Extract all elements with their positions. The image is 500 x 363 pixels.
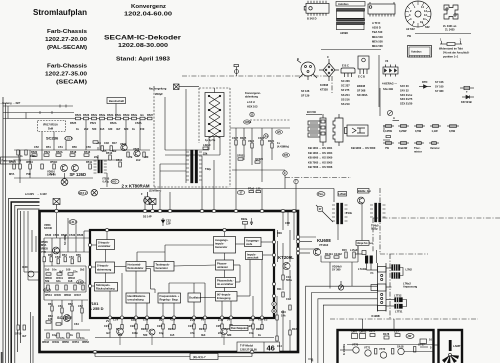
note text Widerstand <box>439 47 470 59</box>
transistor VT61 <box>64 315 71 322</box>
svg-text:IC545: IC545 <box>54 293 61 297</box>
vertical resistors left cluster <box>13 155 122 169</box>
module title box T-/F-Modul 46 <box>237 342 280 352</box>
svg-text:2 x KT80RAM: 2 x KT80RAM <box>122 183 150 188</box>
svg-text:IR535: IR535 <box>41 247 48 251</box>
pin voltage labels under IC <box>106 318 268 324</box>
svg-text:IR510: IR510 <box>26 160 33 164</box>
wire bus top <box>3 106 74 119</box>
svg-text:T32µ: T32µ <box>205 167 211 171</box>
svg-text:B: B <box>297 57 299 61</box>
svg-text:C14: C14 <box>277 344 282 348</box>
block Ausgangs-impuls-Generator <box>214 237 236 254</box>
svg-text:R55: R55 <box>76 253 81 257</box>
left analog cluster extra labels <box>42 233 89 344</box>
svg-text:ZL 3421 an: ZL 3421 an <box>443 24 457 28</box>
svg-text:R52A: R52A <box>110 121 117 125</box>
coil loop wire <box>400 268 407 307</box>
svg-text:680: 680 <box>227 333 232 337</box>
svg-text:SP10: SP10 <box>15 332 22 336</box>
svg-text:DrahtW: DrahtW <box>398 146 408 150</box>
right strip wires <box>277 211 290 352</box>
svg-text:R23: R23 <box>168 327 173 331</box>
diode SY106/360 list <box>435 80 444 93</box>
svg-text:L21 F: L21 F <box>70 220 77 224</box>
svg-text:...tastung → DrP: ...tastung → DrP <box>0 101 20 105</box>
svg-text:DrM: DrM <box>48 127 53 131</box>
svg-text:R518: R518 <box>70 150 77 154</box>
svg-text:1k5: 1k5 <box>170 333 175 337</box>
svg-text:SY 360: SY 360 <box>435 89 444 93</box>
svg-text:C14b2: C14b2 <box>334 252 342 256</box>
cap L32 22k <box>203 147 208 150</box>
svg-text:33n: 33n <box>56 279 61 283</box>
connector ladder F1 <box>371 263 386 312</box>
svg-text:R52b: R52b <box>107 113 114 117</box>
svg-text:(PAL-SECAM): (PAL-SECAM) <box>47 45 87 51</box>
svg-text:90°-Impuls-: 90°-Impuls- <box>217 293 231 297</box>
svg-text:C50: C50 <box>86 145 91 149</box>
svg-text:P7a0: P7a0 <box>248 187 255 191</box>
svg-text:Bereitschaft: Bereitschaft <box>109 99 124 103</box>
svg-text:7W: 7W <box>407 34 411 38</box>
wire from 2xKT80RAM line diagonal <box>298 189 334 254</box>
svg-text:R54: R54 <box>62 253 67 257</box>
svg-text:1202.27-20.00: 1202.27-20.00 <box>45 37 87 43</box>
svg-text:C08: C08 <box>285 221 290 225</box>
svg-text:MEA 500: MEA 500 <box>372 44 383 48</box>
svg-text:L32µ0: L32µ0 <box>203 143 211 147</box>
block Oszillator <box>188 293 201 302</box>
notched IC socket ZL3421 <box>444 5 458 19</box>
svg-text:MEA 540: MEA 540 <box>372 35 383 39</box>
svg-text:O2N1: O2N1 <box>245 120 252 124</box>
KT209L area small parts <box>278 211 295 262</box>
svg-text:SY 106: SY 106 <box>435 80 444 84</box>
DIP IC package A255D list <box>368 2 395 17</box>
svg-text:A: A <box>393 116 395 120</box>
svg-text:SAY 30: SAY 30 <box>47 173 56 177</box>
svg-text:Farb-Chassis: Farb-Chassis <box>47 29 87 35</box>
svg-text:V527: V527 <box>120 142 127 146</box>
svg-text:C23: C23 <box>157 324 162 328</box>
svg-text:SAY30: SAY30 <box>44 226 53 230</box>
connector box KB right <box>57 199 157 212</box>
svg-text:KB 7005 ↔ KS 5005: KB 7005 ↔ KS 5005 <box>308 160 333 164</box>
svg-text:4.2V: 4.2V <box>170 318 176 322</box>
scan crease smudge bottom-left <box>1 352 3 363</box>
svg-text:14h: 14h <box>281 313 286 317</box>
svg-text:ZL 3425: ZL 3425 <box>445 28 455 32</box>
svg-text:1,1W: 1,1W <box>432 129 439 133</box>
page edge double line <box>3 97 6 363</box>
svg-text:1202.27-35.00: 1202.27-35.00 <box>45 72 87 78</box>
extra marks on top chain cluster <box>18 127 149 162</box>
block S-Impuls-verstaerker <box>97 240 115 250</box>
svg-text:SF 129: SF 129 <box>301 94 310 98</box>
svg-text:R52c: R52c <box>115 113 122 117</box>
svg-text:umschalt: umschalt <box>247 256 259 260</box>
svg-text:SF821: SF821 <box>237 154 245 158</box>
components strip under IC <box>109 324 263 329</box>
box Bildende hor <box>358 189 370 194</box>
svg-text:R52A: R52A <box>56 150 63 154</box>
svg-text:SECAM-IC-Dekoder: SECAM-IC-Dekoder <box>104 35 182 42</box>
block Phasendiskr-im-verstaerker <box>216 278 236 288</box>
svg-text:1202.27-76.00: 1202.27-76.00 <box>240 348 257 352</box>
svg-text:Regelsp.- Begr.: Regelsp.- Begr. <box>160 298 179 302</box>
svg-text:KB 1001 ↔ KS 1001: KB 1001 ↔ KS 1001 <box>308 146 333 150</box>
wires to boxes from above <box>363 319 395 330</box>
resistor wattage row 1 <box>383 125 459 128</box>
svg-text:impuls-: impuls- <box>215 242 224 246</box>
separator line under socket <box>415 33 471 35</box>
transformer T14b1 <box>370 203 386 222</box>
svg-text:R14b1: R14b1 <box>325 252 333 256</box>
svg-text:TBA 540: TBA 540 <box>372 30 383 34</box>
svg-text:820: 820 <box>124 127 129 131</box>
svg-text:IC547: IC547 <box>74 293 81 297</box>
block Phasen-umtaster <box>216 260 234 270</box>
svg-text:R52f: R52f <box>147 113 153 117</box>
svg-text:DRV: DRV <box>352 330 358 334</box>
svg-text:1202.08-30.000: 1202.08-30.000 <box>118 43 168 49</box>
svg-text:C54: C54 <box>69 255 74 259</box>
svg-text:3k3: 3k3 <box>201 333 206 337</box>
svg-text:IR546: IR546 <box>64 293 71 297</box>
HD oval 12V <box>111 179 119 184</box>
left outer strip small parts <box>17 325 25 330</box>
svg-text:(SECAM): (SECAM) <box>56 80 87 86</box>
svg-text:SZX 21/xx: SZX 21/xx <box>400 93 413 97</box>
oval 28.5V <box>78 190 87 195</box>
svg-text:IC551: IC551 <box>72 340 79 344</box>
svg-text:Demodulator: Demodulator <box>128 266 144 270</box>
svg-text:Farb-Chassis: Farb-Chassis <box>47 64 87 70</box>
svg-text:KB 7006 ↔ KS 5006: KB 7006 ↔ KS 5006 <box>308 165 333 169</box>
svg-text:P521: P521 <box>90 121 97 125</box>
tick marks along bus wires <box>8 105 66 119</box>
svg-text:C: C <box>327 55 329 59</box>
svg-text:0!: 0! <box>311 359 313 363</box>
svg-text:Generator: Generator <box>156 266 168 270</box>
svg-text:1202.04-60.00: 1202.04-60.00 <box>124 12 172 18</box>
svg-text:1.2V: 1.2V <box>113 318 119 322</box>
block 90-Impuls-Erzeugung <box>216 292 238 302</box>
svg-text:0V: 0V <box>159 318 162 322</box>
svg-text:2k2: 2k2 <box>84 127 89 131</box>
svg-text:47n: 47n <box>60 336 65 340</box>
strip resistor R22a <box>243 222 248 225</box>
svg-text:C64: C64 <box>74 322 79 326</box>
svg-text:IC20: IC20 <box>22 265 28 269</box>
svg-text:IC549: IC549 <box>52 340 59 344</box>
small circle IC20 <box>28 271 34 277</box>
svg-text:SZX 21/30: SZX 21/30 <box>400 102 413 106</box>
svg-text:Stromlaufplan: Stromlaufplan <box>33 8 87 17</box>
svg-text:C53: C53 <box>55 255 60 259</box>
svg-text:C22: C22 <box>130 324 135 328</box>
svg-text:R15: R15 <box>342 248 347 252</box>
svg-text:22n: 22n <box>73 270 78 274</box>
svg-text:Autobus: Autobus <box>338 2 349 6</box>
oval 0.9V <box>43 288 50 292</box>
label box B-4(1)-7 <box>190 354 218 360</box>
svg-text:C12: C12 <box>286 297 291 301</box>
transformer L7A1B (black bars) <box>365 256 373 264</box>
svg-text:Identifikations-: Identifikations- <box>128 294 147 298</box>
svg-text:Phasen-: Phasen- <box>217 262 227 266</box>
svg-text:ablenkung: ablenkung <box>245 95 258 99</box>
svg-text:JW: JW <box>407 334 411 338</box>
separator line mid legend <box>321 49 381 51</box>
svg-text:SD 306A: SD 306A <box>357 93 368 97</box>
svg-text:SAY 32: SAY 32 <box>400 88 409 92</box>
svg-text:abtrennung: abtrennung <box>97 268 112 272</box>
svg-text:R52a: R52a <box>99 113 106 117</box>
svg-text:R22a: R22a <box>241 217 248 221</box>
diode KD521B <box>460 86 474 98</box>
svg-text:SS 204: SS 204 <box>341 93 350 97</box>
svg-text:BD238: BD238 <box>357 84 366 88</box>
lamp bar <box>449 340 452 351</box>
svg-text:2R2µF: 2R2µF <box>155 92 163 96</box>
svg-text:C533: C533 <box>69 233 76 237</box>
svg-text:SF 368: SF 368 <box>357 89 366 93</box>
svg-text:MTA: MTA <box>41 243 47 247</box>
resistor with pins note <box>440 41 462 46</box>
svg-text:K 17/26G: K 17/26G <box>342 344 346 355</box>
right strip extra <box>277 221 297 348</box>
svg-text:VT14b0: VT14b0 <box>319 243 329 247</box>
svg-text:L7T51: L7T51 <box>395 310 403 314</box>
svg-text:C24: C24 <box>188 324 193 328</box>
svg-text:im-verstärker: im-verstärker <box>217 282 233 286</box>
svg-text:KU608: KU608 <box>320 83 329 87</box>
small components right cluster <box>235 140 273 163</box>
svg-text:SF 126D: SF 126D <box>70 172 87 177</box>
legend row 2: transistor can SF126 <box>297 60 317 80</box>
svg-text:SZX 21/75: SZX 21/75 <box>400 97 413 101</box>
svg-text:SF 275: SF 275 <box>341 88 350 92</box>
svg-text:12V: 12V <box>277 130 282 134</box>
svg-text:2.2V: 2.2V <box>190 318 196 322</box>
nested corner bus left <box>9 199 40 363</box>
svg-text:E B C: E B C <box>342 64 349 68</box>
svg-text:L20: L20 <box>256 187 261 191</box>
wires below transformer <box>160 89 214 211</box>
oval Pms <box>317 192 325 197</box>
Durchlauf box <box>230 326 248 331</box>
wires from unit <box>160 88 220 171</box>
svg-text:3V: 3V <box>227 318 230 322</box>
svg-text:Frequenzdem. +: Frequenzdem. + <box>160 294 180 298</box>
svg-text:R536: R536 <box>77 233 84 237</box>
svg-text:75R: 75R <box>41 250 46 254</box>
feed-through pins on outer box top edge <box>55 209 300 353</box>
left cluster extra parts <box>46 273 84 338</box>
svg-text:8V5: 8V5 <box>284 153 289 157</box>
svg-text:Störimpuls-: Störimpuls- <box>96 283 111 287</box>
svg-text:Autobus: Autobus <box>411 50 422 54</box>
coil L7N2 upper pair <box>392 265 401 279</box>
vertical separator <box>378 55 380 107</box>
svg-text:stufe: stufe <box>246 242 253 246</box>
transformer T32 <box>186 150 202 183</box>
svg-text:22k: 22k <box>203 152 208 156</box>
svg-text:C62: C62 <box>78 304 83 308</box>
svg-text:2k2: 2k2 <box>80 268 85 272</box>
svg-text:0,6W: 0,6W <box>449 129 456 133</box>
svg-text:KB 9000 ↔ KS 5000: KB 9000 ↔ KS 5000 <box>351 146 376 150</box>
svg-text:S-Impuls-: S-Impuls- <box>97 264 109 268</box>
transistor V527 <box>121 144 127 150</box>
svg-text:QZ320: QZ320 <box>255 157 263 161</box>
svg-text:10µ: 10µ <box>52 333 57 337</box>
svg-text:100n: 100n <box>132 331 138 335</box>
block Horizontal-Demodulator <box>126 262 146 272</box>
svg-text:SC236: SC236 <box>46 136 59 141</box>
svg-text:IP51D: IP51D <box>50 160 57 164</box>
svg-text:LAMP: LAMP <box>453 344 461 348</box>
oval L21F <box>69 220 77 225</box>
right cluster of dashed box : small parts <box>230 128 290 170</box>
long wire to right at 187 <box>100 188 334 190</box>
svg-text:SC 237: SC 237 <box>341 84 350 88</box>
dashed box IP51 <box>38 121 66 132</box>
svg-text:6V: 6V <box>201 318 204 322</box>
svg-text:H-D: H-D <box>112 180 117 184</box>
svg-text:Horizontal-: Horizontal- <box>128 263 142 267</box>
svg-text:R24: R24 <box>199 327 204 331</box>
svg-text:R534: R534 <box>61 233 68 237</box>
svg-text:75R: 75R <box>26 172 31 176</box>
components left section <box>43 257 80 264</box>
svg-text:10µ: 10µ <box>159 331 164 335</box>
svg-text:C327: C327 <box>232 136 239 140</box>
svg-text:L15a0: L15a0 <box>350 248 358 252</box>
svg-text:1k8: 1k8 <box>68 279 73 283</box>
svg-text:KB 9000 ↔ KS 5000: KB 9000 ↔ KS 5000 <box>308 156 333 160</box>
svg-text:R520: R520 <box>31 150 38 154</box>
svg-text:R174: R174 <box>369 329 376 333</box>
resistor chain R521..R529 top <box>68 117 152 120</box>
svg-text:(B)–4(1)–7: (B)–4(1)–7 <box>193 355 206 359</box>
svg-text:L21 F: L21 F <box>66 137 73 141</box>
plug circle F2 <box>91 190 97 196</box>
svg-text:R52e: R52e <box>131 113 138 117</box>
oval 12V <box>65 136 73 140</box>
svg-text:KB 1004 ↔ KS 1004: KB 1004 ↔ KS 1004 <box>308 151 333 155</box>
wire between A and B <box>434 344 439 346</box>
svg-text:4k7: 4k7 <box>116 127 121 131</box>
svg-text:mistor: mistor <box>414 149 422 153</box>
strip between box tops: diode VD22 <box>161 218 164 226</box>
small box L20a0 <box>338 192 347 197</box>
dash-dot module boundary top <box>182 76 500 319</box>
transformer T520 <box>94 160 107 173</box>
svg-text:1k5: 1k5 <box>45 268 50 272</box>
svg-text:0,33µ: 0,33µ <box>371 227 378 231</box>
outer module box (Farbbaustein) <box>40 211 299 352</box>
KB-KS mating list <box>308 146 376 169</box>
svg-text:KU608: KU608 <box>317 238 331 243</box>
wires continuing down from ladder <box>355 246 395 306</box>
svg-text:46: 46 <box>267 344 275 353</box>
transistor V522 <box>72 165 79 172</box>
small marks under SAL41B legend <box>383 110 393 140</box>
svg-text:IP544: IP544 <box>45 293 52 297</box>
svg-text:C52A: C52A <box>135 121 142 125</box>
svg-text:T14b: T14b <box>346 211 352 215</box>
svg-text:SF 126: SF 126 <box>301 89 310 93</box>
resistor chain labels <box>75 113 153 117</box>
svg-text:IR552: IR552 <box>82 340 89 344</box>
plug circle near transformer <box>144 192 152 204</box>
svg-text:KT328: KT328 <box>320 88 328 92</box>
svg-text:KT209L: KT209L <box>278 255 294 260</box>
svg-text:10n: 10n <box>52 268 57 272</box>
svg-text:SY 360: SY 360 <box>332 268 341 272</box>
svg-text:V528: V528 <box>133 147 140 151</box>
svg-text:MEA 550: MEA 550 <box>372 39 383 43</box>
under-IC strip extra labels <box>106 331 261 337</box>
svg-text:R50: R50 <box>72 145 77 149</box>
svg-text:DTD: DTD <box>422 80 427 84</box>
box Umprint hor <box>356 241 369 246</box>
svg-text:VT70: VT70 <box>352 343 359 347</box>
svg-text:Erzeugung: Erzeugung <box>217 296 231 300</box>
svg-text:560: 560 <box>92 127 97 131</box>
svg-text:R61: R61 <box>48 302 53 306</box>
svg-text:R11: R11 <box>277 287 282 291</box>
svg-text:V324: V324 <box>248 139 255 143</box>
diode type list SAY <box>400 84 413 106</box>
svg-text:L7N2: L7N2 <box>406 268 413 272</box>
svg-text:VT72: VT72 <box>379 347 386 351</box>
svg-text:R178: R178 <box>383 332 390 336</box>
connector drawing left <box>308 114 326 146</box>
svg-text:2.8V: 2.8V <box>143 318 149 322</box>
Farbsynchron box far left <box>1 157 20 164</box>
right strip components <box>276 275 291 320</box>
IC internal wires <box>90 230 274 317</box>
svg-text:L7A1B: L7A1B <box>358 267 366 271</box>
svg-text:28.5 V: 28.5 V <box>79 191 87 195</box>
svg-text:Farbsynchr. → I: Farbsynchr. → I <box>2 159 22 163</box>
svg-text:B 342 D: B 342 D <box>307 17 317 21</box>
svg-text:IR548: IR548 <box>42 340 49 344</box>
svg-text:(15V/8ms): (15V/8ms) <box>149 189 161 193</box>
Autobus single box <box>408 46 432 58</box>
audio module box K17/26G <box>338 330 434 363</box>
svg-text:4k7: 4k7 <box>22 334 27 338</box>
speaker fan <box>442 355 459 363</box>
transistor V521 <box>61 165 68 172</box>
svg-text:L7T52: L7T52 <box>394 294 402 298</box>
transistor VT14b <box>313 248 320 255</box>
svg-text:Generator: Generator <box>215 245 227 249</box>
transistor VT53 <box>53 247 60 254</box>
svg-text:R22: R22 <box>141 327 146 331</box>
top mid small parts x230-250 <box>234 65 239 77</box>
svg-text:Ausgangs-: Ausgangs- <box>246 239 260 243</box>
svg-text:R13: R13 <box>292 327 297 331</box>
svg-text:A 255 D: A 255 D <box>89 306 104 311</box>
small parts above box <box>249 191 261 193</box>
block Impuls-umschalt <box>246 252 263 260</box>
svg-text:punkten 1+1: punkten 1+1 <box>443 55 459 59</box>
